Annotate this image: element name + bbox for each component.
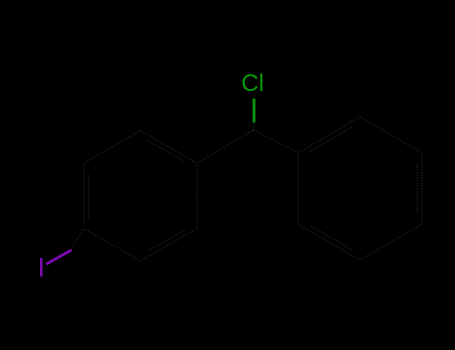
- left ring inner double bond 2: [147, 230, 185, 252]
- right ring inner double bond 1: [416, 164, 418, 213]
- bond I dark half: [70, 228, 84, 250]
- bond I purple half: [46, 250, 71, 264]
- left ring inner double bond 1: [147, 140, 185, 162]
- bond CH-Cl dark half: [253, 121, 255, 131]
- right benzene ring: [298, 117, 422, 260]
- label I: [40, 258, 43, 277]
- left ring inner double bond 3: [88, 174, 90, 218]
- bond Cl green half: [253, 99, 256, 123]
- bond CH-right ring: [254, 130, 299, 153]
- svg-text:Cl: Cl: [241, 70, 264, 97]
- right ring inner double bond 3: [310, 127, 352, 151]
- left benzene ring: [84, 131, 197, 261]
- bond CH-left ring: [197, 130, 254, 163]
- right ring inner double bond 2: [310, 226, 352, 250]
